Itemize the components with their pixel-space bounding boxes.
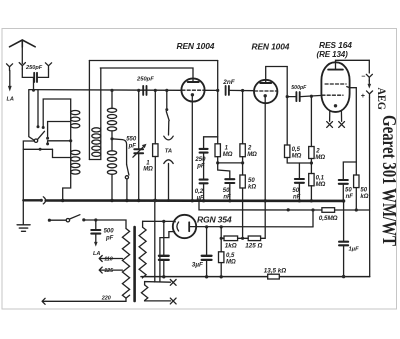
svg-text:REN 1004: REN 1004 (177, 41, 215, 51)
capacitor C 2nF coupling (226, 86, 229, 95)
tap 110 socket (99, 256, 103, 262)
wire tap to 500pF mains (95, 220, 97, 229)
tube V4 filament (177, 222, 179, 231)
wire junction (238, 237, 249, 239)
wire 1MOhm mid column top (154, 90, 156, 143)
node 0.5MOhm bus (220, 275, 223, 278)
node 2MOhm bus top (241, 89, 244, 92)
svg-text:50: 50 (360, 187, 367, 193)
tap 220 wire (46, 298, 126, 301)
wire 2nF to tube V2 grid (230, 89, 254, 91)
resistor R 1MOhm mid (153, 144, 158, 157)
antenna (10, 40, 36, 47)
resistor R 1MOhm grid (215, 144, 220, 157)
node 1MOhm mid bus bottom (154, 199, 157, 202)
node B+ line joint (287, 208, 290, 211)
svg-text:MΩ: MΩ (315, 155, 325, 161)
wire tap to tuning capacitor switch (112, 139, 127, 165)
svg-text:0,1: 0,1 (316, 176, 325, 182)
arrow between speaker terminals (368, 80, 370, 85)
switch S2 lever (127, 165, 129, 176)
antenna socket Y2 (19, 63, 25, 70)
wire L1 L2 spine (70, 111, 72, 151)
node V3 grid stopper junction (310, 95, 313, 98)
wire 1MOhm grid column (217, 90, 219, 143)
svg-text:−: − (361, 74, 365, 81)
speaker terminal minus jack (366, 74, 372, 81)
speaker terminal plus jack (367, 91, 373, 98)
svg-text:pF: pF (128, 143, 137, 149)
capacitor C 50nF anode (295, 179, 304, 183)
tube V4 RGN354 envelope (173, 215, 196, 238)
capacitor C 3uF second (202, 256, 212, 260)
resistor R 13.5kOhm (268, 274, 280, 279)
wire 1MOhm grid bottom (217, 157, 219, 163)
wire top box left vertical (88, 61, 90, 160)
wire 0.5MOhm bottom jog (287, 158, 311, 164)
svg-text:250pF: 250pF (25, 65, 43, 71)
resistor R 2MOhm V3 (309, 147, 314, 159)
wire 2MOhm V3 column (310, 96, 312, 146)
wire tap contact C (48, 122, 71, 137)
svg-text:µF: µF (196, 195, 204, 201)
svg-text:50: 50 (292, 188, 299, 194)
svg-text:3µF: 3µF (192, 262, 204, 269)
arrow to LA (9, 71, 11, 88)
node V4 anode line cap2 (205, 225, 208, 228)
svg-text:MΩ: MΩ (292, 154, 302, 160)
svg-text:250: 250 (194, 157, 206, 163)
resistor R 1kOhm (224, 236, 238, 241)
switch S3 lever (166, 112, 169, 121)
svg-text:0,5: 0,5 (292, 147, 301, 153)
node bias chain top (220, 225, 223, 228)
wire V1 anode lead (192, 79, 194, 82)
switch S4 mains lever (70, 215, 80, 219)
svg-text:250pF: 250pF (136, 76, 154, 82)
resistor R 50kOhm screen (354, 175, 359, 188)
svg-text:50: 50 (248, 178, 255, 184)
wire junction to 50nF (218, 163, 230, 178)
transformer T1 primary winding (122, 229, 129, 299)
wire 0.2uF to main bus (203, 184, 205, 201)
node 550pF bus top (137, 89, 140, 92)
wire 0.1MOhm to main bus (310, 186, 312, 201)
resistor R 0.5MOhm bias (219, 252, 224, 263)
wire grid coil column top (111, 90, 113, 108)
svg-text:1kΩ: 1kΩ (225, 243, 237, 250)
heater X left (327, 122, 333, 128)
tube V1 cathode (191, 93, 194, 96)
tube V2 cathode (264, 94, 267, 97)
wire mains switch line start (48, 219, 51, 222)
tube V1 grid (dashed) (182, 89, 204, 91)
wire top box horizontal (89, 60, 217, 62)
wire 3uF cap2 column (206, 227, 208, 255)
wire grid bus (left section) (29, 89, 182, 92)
svg-text:nF: nF (223, 195, 231, 201)
band switch contact B (42, 126, 45, 129)
svg-text:50: 50 (223, 188, 230, 194)
wire 1MOhm mid column bottom (154, 157, 156, 201)
node 2MOhm junction (241, 161, 244, 164)
wire 125Ohm right up to cathode column (261, 202, 266, 239)
wire B+ line right part (335, 209, 370, 211)
node L2 bus (61, 199, 64, 202)
switch S2 pivot (125, 176, 128, 179)
node coil tap (110, 137, 113, 140)
node V2 cathode bus (264, 199, 267, 202)
tube V3 screen grid (dashed) (325, 83, 346, 85)
TA jack upper hook (164, 136, 173, 140)
tube V3 cathode (334, 104, 337, 107)
antenna coil L1 (71, 111, 80, 115)
coil L3 oscillator (92, 128, 101, 132)
svg-text:RES 164: RES 164 (319, 40, 352, 50)
wire V2 cathode to main bus (264, 97, 266, 201)
node V1 cathode bus (191, 199, 194, 202)
arrow 550pF variable (133, 146, 144, 157)
wire anode line riser (312, 210, 314, 227)
wire filament bottom to X (145, 300, 171, 302)
tube V3 anode (328, 69, 343, 71)
wire 50nF screen to bus end (342, 184, 344, 201)
wire 250pF to 0.2uF (203, 153, 205, 178)
node grid coil bus (110, 89, 113, 92)
tube V4 anode plate (188, 222, 190, 231)
svg-text:125: 125 (104, 268, 114, 274)
tube V1 REN1004 envelope (181, 78, 204, 101)
wire V1 cathode lead to main bus (191, 96, 193, 201)
node tap line (39, 148, 42, 151)
wire V3 screen lead (347, 87, 357, 162)
wire bus riser to switch (23, 141, 34, 200)
tube V3 RES164 envelope (321, 62, 349, 112)
wire V4 filament top lead (174, 220, 176, 222)
svg-text:kΩ: kΩ (360, 194, 368, 200)
node bus x218 (216, 89, 219, 92)
node 50nF bus (228, 199, 231, 202)
band switch contact D (46, 142, 49, 145)
transformer T1 filament winding (141, 285, 147, 301)
wire S2 to bus (126, 179, 128, 201)
svg-text:REN 1004: REN 1004 (252, 42, 290, 52)
wire grid bus to 1MOhm column (205, 89, 218, 91)
wire to 1kOhm (221, 237, 224, 239)
node L5 bus (110, 199, 113, 202)
node 3uF cap2 bus (205, 275, 208, 278)
tube V2 grid (dashed) (255, 90, 277, 92)
node TA bus top (165, 89, 168, 92)
wire bottom bus (141, 276, 370, 278)
svg-text:220: 220 (101, 295, 111, 301)
wire to 500pF (287, 96, 295, 98)
heater X supply lower (170, 298, 176, 304)
capacitor C 1uF (339, 242, 348, 246)
wire V3 anode lead (336, 60, 370, 69)
transformer T1 HV secondary (139, 221, 146, 277)
capacitor C 250pF series on bus (143, 86, 146, 95)
wire screen tee to 50nF (343, 162, 356, 179)
arrow 500pF to LA (95, 234, 97, 243)
wire L4 to tap node (111, 131, 113, 151)
wire 0.5MOhm vert to bottom bus (220, 263, 222, 277)
node coil tap spine (69, 139, 72, 142)
wire bias chain vertical (220, 227, 222, 238)
wire 2MOhm V3 bottom (310, 159, 312, 174)
svg-text:nF: nF (346, 194, 354, 200)
node 1uF bus (342, 275, 345, 278)
wire 500pF to V3 grid (301, 95, 322, 96)
wire junction to 50kOhm (242, 163, 244, 175)
svg-text:13,5 kΩ: 13,5 kΩ (264, 267, 287, 274)
svg-text:1: 1 (225, 146, 229, 152)
switch S3 contact (165, 108, 168, 111)
wire screen tee to 50kOhm (355, 162, 357, 175)
wire second tap (53, 149, 71, 157)
wire 2MOhm column top (242, 91, 244, 144)
antenna socket Y1 (7, 64, 13, 71)
tap 110 wire (103, 258, 122, 260)
transformer T1 primary lower (126, 295, 130, 298)
svg-text:(RE 134): (RE 134) (317, 50, 349, 59)
band switch S1 pivot (34, 139, 37, 142)
wire 3uF cap2 to bottom bus (206, 261, 208, 277)
node 50kOhm B+ (355, 208, 358, 211)
svg-text:2: 2 (315, 149, 320, 155)
wire 2MOhm bottom (242, 157, 244, 163)
resistor R 0.5MOhm feed (322, 208, 335, 213)
wire heater midline (154, 201, 156, 283)
capacitor C 50nF cathode (225, 179, 234, 183)
band switch contact A (37, 125, 40, 128)
wire switched tap line (23, 148, 52, 150)
node 1MOhm mid bus top (154, 89, 157, 92)
wire contact D to spine tap (48, 141, 71, 144)
wire V2 anode lead (266, 67, 288, 84)
tube V2 REN1004 envelope (254, 80, 277, 103)
wire switch to transformer primary (84, 220, 126, 229)
svg-text:0,5: 0,5 (226, 253, 235, 259)
wire antenna to capacitor (22, 69, 33, 78)
svg-text:LA: LA (7, 97, 14, 103)
capacitor C 500pF coupling (296, 92, 299, 101)
wire capacitor junction down to grid bus (33, 78, 35, 90)
wire 1uF to bottom bus (343, 246, 345, 277)
svg-text:0,5MΩ: 0,5MΩ (319, 215, 338, 222)
svg-text:1µF: 1µF (349, 246, 360, 252)
capacitor C 0.2uF (200, 180, 208, 184)
wire HV secondary top line (143, 220, 174, 222)
wire 50nF anode branch (298, 163, 300, 178)
wire anode tube1 feed (100, 68, 193, 79)
wire V2 anode down (286, 67, 288, 146)
wire L3 bottom return to top box (89, 128, 100, 160)
node 1kOhm 125Ohm junction (241, 237, 244, 240)
svg-text:RGN 354: RGN 354 (197, 215, 232, 225)
node grid leak junction (216, 161, 219, 164)
capacitor C 500pF mains (91, 230, 100, 234)
svg-text:LA: LA (93, 251, 100, 257)
node 50nF anode bus (298, 199, 301, 202)
tube V3 heater leads (330, 111, 342, 122)
svg-text:AEG: AEG (375, 88, 387, 111)
svg-text:MΩ: MΩ (226, 260, 236, 266)
wire 1uF column (343, 201, 345, 241)
svg-text:50: 50 (345, 187, 352, 193)
antenna coil L2 (71, 150, 80, 154)
wire top box right vertical (217, 61, 219, 91)
wire antenna lead (21, 44, 23, 64)
node TA bus bottom (167, 199, 170, 202)
capacitor C 50nF screen (339, 180, 348, 184)
node 0.1MOhm bus (310, 199, 313, 202)
node bias chain mid (220, 237, 223, 240)
coil L5 (107, 151, 116, 155)
ground (17, 225, 30, 232)
capacitor C 250pF grid (200, 149, 208, 153)
node heater midline bus (153, 199, 156, 202)
node bus end (342, 199, 345, 202)
svg-text:MΩ: MΩ (143, 167, 153, 173)
wire V4 filament bottom lead (160, 232, 175, 282)
wire contact A up to grid bus (37, 90, 39, 127)
node 500pF mains tap (94, 218, 97, 221)
node 3uF cap1 bus (162, 275, 165, 278)
transformer T1 core (133, 227, 136, 301)
node 500pF branch (286, 95, 289, 98)
wire 0.5MOhm vert column (220, 238, 222, 252)
antenna socket Y3 (45, 63, 51, 70)
node 2MOhm V3 junction (310, 161, 313, 164)
tube V3 control grid (dashed) (322, 94, 343, 96)
wire plus terminal down right edge (369, 98, 371, 277)
resistor R 50kOhm (240, 175, 245, 188)
svg-text:Gearet 301 WM/WT: Gearet 301 WM/WT (378, 115, 399, 246)
wire main ground bus left part (23, 199, 41, 201)
grid coil L4 (107, 108, 116, 112)
resistor R 0.1MOhm (309, 174, 314, 186)
svg-text:500: 500 (104, 229, 115, 235)
node S2 bus (125, 199, 128, 202)
svg-text:+: + (361, 93, 365, 100)
tube V2 anode (260, 82, 271, 84)
wire L2 bottom to bus (63, 150, 71, 200)
svg-text:TA: TA (165, 149, 172, 155)
switch S4 mains pivot (66, 219, 69, 222)
wire junction to 2MOhm column (218, 162, 243, 164)
resistor R 2MOhm grid2 (240, 144, 245, 157)
wire S3 to TA jack (168, 121, 170, 135)
svg-text:MΩ: MΩ (223, 152, 233, 158)
band switch S1 lever (38, 131, 45, 139)
resistor R 125Ohm (248, 236, 260, 241)
capacitor C 3uF first (159, 256, 169, 260)
svg-text:MΩ: MΩ (316, 182, 326, 188)
wire TA column upper (166, 90, 168, 108)
svg-text:pF: pF (196, 163, 205, 169)
svg-text:110: 110 (104, 257, 113, 263)
wire L5 bottom to bus (111, 174, 113, 200)
TA jack lower hook (164, 160, 173, 164)
wire anode feed down to coil L3 (100, 68, 102, 128)
svg-text:125 Ω: 125 Ω (245, 242, 262, 249)
wire TA jack to bus (168, 164, 170, 201)
wire main ground bus (46, 199, 344, 202)
node riser B+ (311, 208, 314, 211)
svg-text:0,2: 0,2 (195, 189, 204, 195)
heater X right (339, 122, 345, 128)
wire 50kOhm down through bus to bias chain (242, 188, 244, 238)
heater X supply upper (170, 280, 176, 286)
tap 220 socket (42, 298, 46, 304)
connector hop on bus (43, 197, 45, 204)
node 3uF cap1 top (162, 220, 165, 223)
svg-text:nF: nF (293, 195, 301, 201)
wire contact B to coil L1 top (43, 99, 70, 128)
node 0.2uF bus (202, 199, 205, 202)
switch S4 mains contact (82, 218, 85, 221)
wire ground drop (22, 200, 24, 224)
wire 50nF anode to main bus (298, 183, 300, 200)
band switch contact C (46, 137, 49, 140)
svg-text:kΩ: kΩ (248, 184, 256, 190)
svg-text:MΩ: MΩ (247, 152, 257, 158)
svg-text:500pF: 500pF (291, 85, 307, 91)
wire 550pF column top (138, 90, 140, 148)
resistor R 0.5MOhm anode V2 (285, 145, 290, 158)
node 550pF bus bottom (137, 199, 140, 202)
wire 50nF to main bus (229, 184, 231, 201)
svg-text:2nF: 2nF (222, 79, 235, 86)
tap 125 wire (103, 269, 122, 271)
wire B+ line from bus elbow (199, 201, 322, 210)
wire speaker minus lead down (368, 60, 370, 73)
wire band switch feed from grid bus (29, 90, 34, 140)
wire capacitor right to socket Y3 (38, 70, 49, 78)
node connector dot (40, 199, 43, 202)
wire filament top to X (145, 282, 171, 285)
tube V1 anode (188, 81, 199, 83)
svg-text:550: 550 (126, 136, 137, 142)
node cap-bus junction (32, 89, 35, 92)
capacitor C 250pF antenna (34, 73, 37, 82)
svg-text:2: 2 (247, 146, 252, 152)
wire branch to 250pF chain (204, 137, 218, 148)
tap 125 socket (99, 267, 103, 273)
svg-text:pF: pF (105, 235, 114, 241)
wire 550pF column bottom (138, 154, 140, 201)
wire 50kOhm screen to B+ line (355, 188, 357, 210)
wire 3uF cap1 to bottom bus (163, 261, 165, 277)
wire V4 anode out (189, 226, 313, 228)
capacitor C 550pF variable (134, 149, 143, 153)
wire 3uF cap1 column (163, 221, 165, 254)
